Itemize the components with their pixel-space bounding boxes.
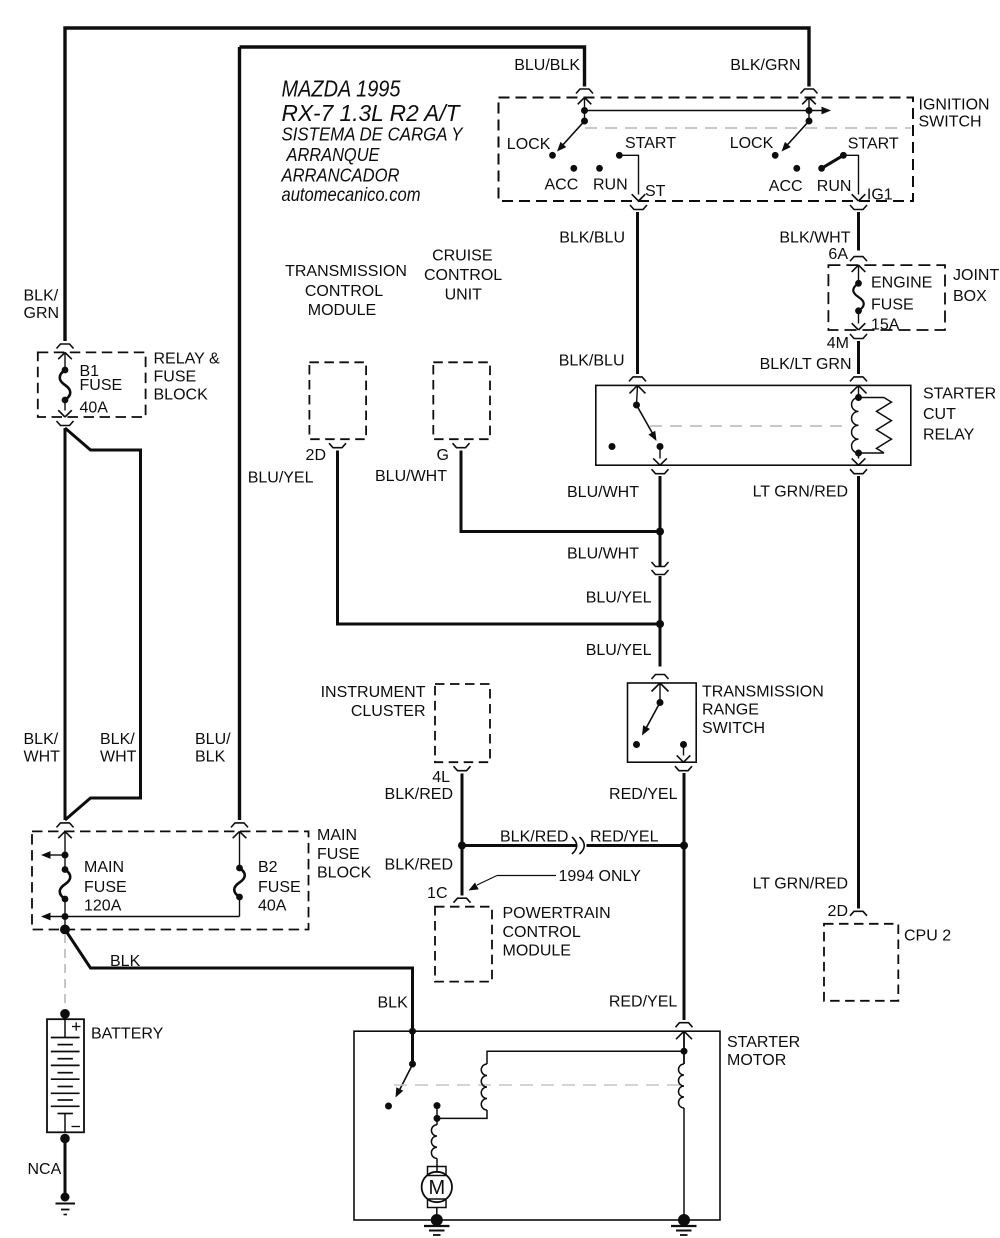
svg-text:FUSE: FUSE xyxy=(258,879,301,896)
label LOCK left xyxy=(507,136,551,153)
contact starter switch left xyxy=(385,1103,392,1110)
relay switch input wire xyxy=(637,385,638,405)
label START left xyxy=(625,135,676,152)
svg-text:BATTERY: BATTERY xyxy=(91,1026,164,1043)
svg-text:BLOCK: BLOCK xyxy=(154,387,209,404)
svg-text:WHT: WHT xyxy=(100,749,137,766)
connector into main fuse block left xyxy=(57,823,74,838)
svg-text:STARTER: STARTER xyxy=(727,1034,800,1051)
wire RED/YEL junction to starter motor xyxy=(683,846,686,1021)
svg-text:RED/YEL: RED/YEL xyxy=(590,829,659,846)
svg-text:CONTROL: CONTROL xyxy=(424,267,502,284)
wire BLK/BLU ignition to relay xyxy=(636,212,639,374)
label B1 FUSE 40A xyxy=(80,363,123,416)
label 4M xyxy=(827,335,849,352)
connector into relay & fuse block xyxy=(57,344,74,359)
label BLU/BLK xyxy=(514,57,580,74)
svg-text:CUT: CUT xyxy=(923,406,956,423)
svg-text:BLU/YEL: BLU/YEL xyxy=(586,642,652,659)
range switch lever xyxy=(642,703,660,736)
svg-text:JOINT: JOINT xyxy=(953,267,999,284)
label CRUISE CONTROL UNIT xyxy=(424,247,502,303)
starter mechanical link (gray dashed) xyxy=(394,1084,682,1086)
svg-text:BLU/WHT: BLU/WHT xyxy=(567,546,639,563)
svg-text:BLU/BLK: BLU/BLK xyxy=(514,57,580,74)
ignition right pin wire xyxy=(808,98,810,122)
svg-text:BLK/LT GRN: BLK/LT GRN xyxy=(760,356,852,373)
contact starter switch right xyxy=(434,1102,441,1109)
ignition left lever (LOCK position) xyxy=(557,121,585,152)
wire BLU/WHT relay to junction xyxy=(659,476,662,532)
svg-text:1994 ONLY: 1994 ONLY xyxy=(559,868,642,885)
node ignition left pin xyxy=(581,107,588,125)
svg-text:BLK: BLK xyxy=(110,953,141,970)
svg-text:BLU/WHT: BLU/WHT xyxy=(567,484,639,501)
svg-text:BLK/GRN: BLK/GRN xyxy=(730,57,800,74)
svg-text:2D: 2D xyxy=(828,903,848,920)
label RED/YEL 2 xyxy=(609,994,678,1011)
starter motor box xyxy=(354,1031,720,1220)
svg-text:CONTROL: CONTROL xyxy=(503,924,581,941)
label BLK/WHT right xyxy=(100,731,137,766)
label BLK/RED 1 xyxy=(385,786,453,803)
wire BLK/RED junction to inline connector xyxy=(462,844,578,847)
label BLK lower xyxy=(378,995,409,1012)
wire BLK/GRN from battery feed: top run and left drop xyxy=(65,28,809,341)
node main fuse output xyxy=(60,925,70,935)
relay coil output wire xyxy=(852,453,866,465)
label NCA xyxy=(28,1161,62,1178)
svg-text:G: G xyxy=(437,447,449,464)
branch arrow lower with link to B2 xyxy=(41,913,240,921)
battery bottom conductor xyxy=(64,1114,66,1133)
svg-text:RUN: RUN xyxy=(593,177,628,194)
starter switch lever xyxy=(396,1065,413,1098)
label ACC left xyxy=(545,177,579,194)
label BLK/WHT 6A xyxy=(779,230,850,264)
connector PCM pin 1C xyxy=(454,898,471,903)
solenoid pull-in coil return xyxy=(437,1110,487,1118)
node relay switch pivot xyxy=(633,402,640,409)
wire LT GRN/RED relay to CPU 2 xyxy=(857,476,860,909)
svg-text:SISTEMA DE CARGA Y: SISTEMA DE CARGA Y xyxy=(282,124,465,145)
node coil return junction xyxy=(434,1115,441,1122)
label BLK/BLU upper xyxy=(559,230,625,247)
main fuse block box xyxy=(32,831,309,929)
wire BLU/BLK left vertical to main fuse block B2 xyxy=(238,47,241,820)
cpu 2 box xyxy=(824,924,898,1001)
relay mechanical link (gray dashed) xyxy=(650,425,846,427)
node relay output contact xyxy=(657,443,664,450)
svg-text:TRANSMISSION: TRANSMISSION xyxy=(285,263,407,280)
svg-text:automecanico.com: automecanico.com xyxy=(282,185,421,206)
powertrain control module box xyxy=(435,907,492,982)
svg-text:TRANSMISSION: TRANSMISSION xyxy=(702,683,824,700)
main fuse wire top xyxy=(64,831,66,869)
solenoid pull-in coil xyxy=(481,1064,487,1110)
svg-text:BOX: BOX xyxy=(953,288,987,305)
svg-text:ST: ST xyxy=(645,183,666,200)
contact RUN left xyxy=(596,165,603,172)
svg-text:RELAY: RELAY xyxy=(923,426,975,443)
svg-text:BLK/RED: BLK/RED xyxy=(500,829,568,846)
svg-text:RED/YEL: RED/YEL xyxy=(609,786,678,803)
label BLK/GRN left xyxy=(24,288,60,323)
wire BLK/LT GRN joint box to relay xyxy=(857,341,860,374)
label JOINT BOX xyxy=(953,267,999,305)
connector ST below ignition xyxy=(630,205,647,210)
label ST xyxy=(645,183,666,200)
label G xyxy=(437,447,449,464)
fuse B2 wire bottom xyxy=(239,897,241,917)
svg-text:BLU/YEL: BLU/YEL xyxy=(248,469,314,486)
wire BLK/RED cluster to junction xyxy=(461,774,464,846)
node hold coil top xyxy=(681,1048,688,1055)
label POWERTRAIN CONTROL MODULE xyxy=(503,905,611,959)
contact RUN right xyxy=(818,165,825,172)
fuse B2 40A xyxy=(234,865,245,901)
range switch input wire xyxy=(659,683,661,703)
label MAIN FUSE 120A xyxy=(84,859,127,915)
label RUN right xyxy=(817,178,852,195)
node BLU/WHT junction xyxy=(656,528,664,536)
solenoid hold coil input xyxy=(683,1031,685,1064)
solenoid hold coil xyxy=(679,1064,685,1108)
svg-text:RANGE: RANGE xyxy=(702,702,759,719)
ignition IG1 takeoff wire xyxy=(843,155,865,201)
label START right xyxy=(848,136,899,153)
contact START left xyxy=(616,152,623,159)
inline connector BLU/WHT-BLU/YEL xyxy=(652,562,669,575)
label 2D CPU xyxy=(828,903,848,920)
label TRANSMISSION RANGE SWITCH xyxy=(702,683,824,737)
wire hold coil to ground xyxy=(683,1108,685,1220)
svg-text:1C: 1C xyxy=(427,885,447,902)
ignition ST takeoff wire xyxy=(619,155,645,201)
svg-text:FUSE: FUSE xyxy=(80,377,123,394)
svg-text:RUN: RUN xyxy=(817,178,852,195)
connector at ignition pin BLU/BLK xyxy=(576,89,593,104)
ignition RUN-START bridge xyxy=(822,155,844,168)
motor M xyxy=(422,1167,452,1208)
label 2D xyxy=(306,447,326,464)
connector CPU 2 pin 2D xyxy=(850,911,867,916)
label STARTER CUT RELAY xyxy=(923,386,996,444)
svg-text:SWITCH: SWITCH xyxy=(919,113,982,130)
wire NCA xyxy=(64,1139,67,1198)
contact relay NC (isolated) xyxy=(609,443,616,450)
svg-text:ENGINE: ENGINE xyxy=(871,274,932,291)
battery plus sign xyxy=(72,1022,81,1030)
label BLU/WHT at cruise xyxy=(375,468,447,485)
wire to battery (gray dashed) xyxy=(64,934,66,1009)
connector cruise pin G xyxy=(453,443,470,448)
node battery negative xyxy=(60,1134,70,1144)
relay & fuse block box xyxy=(38,352,146,417)
label 4L xyxy=(432,769,450,786)
joint box xyxy=(828,265,945,330)
connector cluster pin 4L xyxy=(454,766,471,771)
engine fuse wire bottom xyxy=(852,311,866,330)
node range switch pivot xyxy=(657,699,664,706)
wire field coil to motor xyxy=(436,1158,438,1172)
wire BLK/WHT right branch xyxy=(65,428,141,820)
battery top conductor xyxy=(64,1019,66,1037)
label BLK/LT GRN xyxy=(760,356,852,373)
label BLU/WHT 2 xyxy=(567,546,639,563)
node starter switch pivot xyxy=(409,1061,416,1068)
relay lever xyxy=(637,405,657,441)
svg-text:4L: 4L xyxy=(432,769,450,786)
battery minus sign xyxy=(72,1126,81,1128)
wire BLK/WHT straight branch xyxy=(64,428,67,820)
svg-text:MODULE: MODULE xyxy=(308,302,376,319)
contact LOCK right xyxy=(772,152,779,159)
svg-text:NCA: NCA xyxy=(28,1161,62,1178)
svg-text:WHT: WHT xyxy=(24,749,61,766)
svg-text:LOCK: LOCK xyxy=(507,136,551,153)
title ARRANQUE xyxy=(286,144,380,165)
starter cut relay box xyxy=(596,385,911,465)
ignition switch box xyxy=(499,98,914,202)
connector IG1 below ignition xyxy=(850,205,867,210)
label CPU 2 xyxy=(904,928,951,945)
wire BLK main fuse to starter motor xyxy=(65,930,413,1032)
svg-text:LT GRN/RED: LT GRN/RED xyxy=(753,483,848,500)
connector into transmission range switch xyxy=(652,675,669,692)
svg-text:BLK/RED: BLK/RED xyxy=(385,786,453,803)
connector into starter motor xyxy=(676,1023,693,1039)
wire RED/YEL connector to junction xyxy=(587,844,685,847)
connector below relay right xyxy=(850,469,867,474)
title MAZDA 1995 xyxy=(282,76,401,102)
svg-text:BLK/: BLK/ xyxy=(100,731,135,748)
label LOCK right xyxy=(730,135,774,152)
wire BLU/WHT from cruise G xyxy=(461,451,660,532)
ignition right lever (LOCK position) xyxy=(782,121,810,152)
svg-text:BLK: BLK xyxy=(378,995,409,1012)
connector into main fuse block B2 xyxy=(231,823,248,838)
relay coil resistor xyxy=(859,398,892,454)
starter motor field coil xyxy=(431,1125,437,1159)
node ignition right pin xyxy=(806,107,813,125)
title automecanico.com xyxy=(282,185,421,206)
ignition mechanical link (gray dashed) xyxy=(585,127,911,129)
contact START right xyxy=(840,152,847,159)
relay coil xyxy=(852,398,859,454)
battery plates xyxy=(51,1038,80,1114)
svg-text:2D: 2D xyxy=(306,447,326,464)
wire BLK/WHT ignition to joint box xyxy=(857,212,860,251)
svg-text:POWERTRAIN: POWERTRAIN xyxy=(503,905,611,922)
svg-text:RX-7 1.3L R2 A/T: RX-7 1.3L R2 A/T xyxy=(282,100,462,126)
ignition left pin wire xyxy=(584,98,586,122)
label MAIN FUSE BLOCK title xyxy=(317,827,372,882)
ignition feed line with arrow xyxy=(585,107,831,115)
contact range switch left xyxy=(633,741,640,748)
svg-text:BLK: BLK xyxy=(195,749,226,766)
title RX-7 1.3L R2 A/T xyxy=(282,100,462,126)
svg-text:BLK/RED: BLK/RED xyxy=(385,857,453,874)
solenoid pull-in coil feed xyxy=(487,1051,684,1064)
main fuse 120A xyxy=(60,866,71,902)
node BLU/YEL junction xyxy=(656,620,664,628)
svg-text:GRN: GRN xyxy=(24,305,60,322)
label BLK/GRN xyxy=(730,57,800,74)
callout 1994 ONLY xyxy=(469,868,642,891)
label BLU/YEL 1 xyxy=(586,590,652,607)
label ACC right xyxy=(769,178,803,195)
main fuse wire bottom xyxy=(64,899,66,930)
node relay coil bottom xyxy=(855,450,862,457)
label BLK/RED 2 xyxy=(385,857,453,874)
transmission control module box xyxy=(309,362,366,439)
svg-text:MODULE: MODULE xyxy=(503,943,571,960)
svg-text:RED/YEL: RED/YEL xyxy=(609,994,678,1011)
svg-text:FUSE: FUSE xyxy=(317,846,360,863)
svg-text:CLUSTER: CLUSTER xyxy=(351,703,426,720)
label BLU/YEL 2 xyxy=(586,642,652,659)
label LT GRN/RED 2 xyxy=(753,876,848,893)
label STARTER MOTOR xyxy=(727,1034,800,1069)
svg-text:BLK/BLU: BLK/BLU xyxy=(559,230,625,247)
wire motor to ground xyxy=(436,1208,438,1221)
svg-text:BLK/WHT: BLK/WHT xyxy=(779,230,850,247)
transmission range switch box xyxy=(628,683,697,762)
svg-text:START: START xyxy=(625,135,676,152)
wire BLK/RED junction to PCM xyxy=(461,846,464,896)
svg-text:STARTER: STARTER xyxy=(923,386,996,403)
title ARRANCADOR xyxy=(281,165,400,186)
battery box xyxy=(47,1019,84,1132)
label BLU/WHT 1 xyxy=(567,484,639,501)
connector TCM pin 2D xyxy=(329,443,346,448)
label B2 FUSE 40A xyxy=(258,859,301,915)
label BLU/YEL at TCM xyxy=(248,469,314,486)
connector into starter cut relay right xyxy=(850,377,867,394)
fuse B2 wire top xyxy=(239,831,241,868)
svg-text:40A: 40A xyxy=(258,898,287,915)
svg-text:UNIT: UNIT xyxy=(445,287,483,304)
svg-text:MOTOR: MOTOR xyxy=(727,1052,786,1069)
svg-text:M: M xyxy=(428,1177,445,1199)
ground at battery xyxy=(56,1193,76,1215)
label ENGINE FUSE 15A xyxy=(871,274,932,333)
wire BLU/YEL junction to range switch xyxy=(659,624,662,667)
connector below relay & fuse block xyxy=(57,421,74,426)
wire contact to motor xyxy=(436,1106,438,1125)
label IG1 xyxy=(867,187,893,204)
connector into joint box xyxy=(850,257,867,272)
label RED/YEL 1 xyxy=(609,786,678,803)
inline connector BLK/RED-RED/YEL xyxy=(572,837,584,854)
contact ACC right xyxy=(793,165,800,172)
svg-text:B2: B2 xyxy=(258,859,278,876)
connector at ignition pin BLK/GRN xyxy=(801,89,818,104)
svg-text:ARRANCADOR: ARRANCADOR xyxy=(281,165,400,186)
starter switch input wire xyxy=(411,1031,414,1064)
contact LOCK left xyxy=(549,152,556,159)
label LT GRN/RED 1 xyxy=(753,483,848,500)
node relay coil top xyxy=(855,394,862,401)
svg-text:CONTROL: CONTROL xyxy=(305,283,383,300)
svg-text:BLU/: BLU/ xyxy=(195,731,231,748)
instrument cluster box xyxy=(435,684,490,762)
svg-text:BLK/BLU: BLK/BLU xyxy=(559,352,625,369)
svg-text:SWITCH: SWITCH xyxy=(702,720,765,737)
connector below joint box xyxy=(850,334,867,339)
fuse B1 wire top xyxy=(64,352,66,370)
svg-text:BLOCK: BLOCK xyxy=(317,865,372,882)
svg-text:START: START xyxy=(848,136,899,153)
engine fuse wire top xyxy=(858,265,860,283)
wire RED/YEL range switch to junction xyxy=(683,773,686,846)
connector into starter cut relay left xyxy=(629,377,646,394)
wire BLU/WHT junction to connector xyxy=(659,532,662,567)
svg-text:FUSE: FUSE xyxy=(84,879,127,896)
fuse B1 wire bottom xyxy=(58,400,72,417)
svg-text:RELAY &: RELAY & xyxy=(154,350,220,367)
svg-text:40A: 40A xyxy=(80,400,109,417)
node BLK/RED junction xyxy=(458,842,466,850)
contact range switch right xyxy=(680,741,687,748)
svg-text:IGNITION: IGNITION xyxy=(919,97,990,114)
svg-text:LOCK: LOCK xyxy=(730,135,774,152)
svg-text:BLK/: BLK/ xyxy=(24,288,59,305)
branch arrow upper xyxy=(41,851,69,859)
svg-text:MAZDA 1995: MAZDA 1995 xyxy=(282,76,401,102)
node BLK entry on case xyxy=(409,1028,416,1035)
label TRANSMISSION CONTROL MODULE xyxy=(285,263,407,319)
cruise control unit box xyxy=(433,362,490,439)
svg-text:MAIN: MAIN xyxy=(317,827,357,844)
ground at solenoid xyxy=(671,1214,697,1235)
label BLK/RED horizontal xyxy=(500,829,568,846)
engine fuse 15A xyxy=(853,280,864,314)
title SISTEMA DE CARGA Y xyxy=(282,124,465,145)
range switch output wire xyxy=(677,745,691,763)
svg-text:FUSE: FUSE xyxy=(871,296,914,313)
svg-text:BLK/: BLK/ xyxy=(24,731,59,748)
connector below relay left xyxy=(652,469,669,474)
connector below range switch xyxy=(675,766,692,771)
svg-text:LT GRN/RED: LT GRN/RED xyxy=(753,876,848,893)
svg-text:6A: 6A xyxy=(828,246,848,263)
node RED/YEL junction xyxy=(680,842,688,850)
svg-text:MAIN: MAIN xyxy=(84,859,124,876)
svg-text:4M: 4M xyxy=(827,335,849,352)
label BLK upper xyxy=(110,953,141,970)
svg-text:BLU/YEL: BLU/YEL xyxy=(586,590,652,607)
wire BLU/BLK top run and drop to ignition xyxy=(240,47,585,87)
label BATTERY xyxy=(91,1026,164,1043)
relay coil input wire xyxy=(858,385,860,397)
svg-text:BLU/WHT: BLU/WHT xyxy=(375,468,447,485)
svg-text:CRUISE: CRUISE xyxy=(432,247,492,264)
contact ACC left xyxy=(570,165,577,172)
node battery positive xyxy=(60,1009,70,1019)
svg-text:ACC: ACC xyxy=(769,178,803,195)
relay output wire xyxy=(653,447,667,466)
wire BLU/YEL connector to junction xyxy=(659,576,662,624)
label RUN left xyxy=(593,177,628,194)
svg-text:15A: 15A xyxy=(871,317,900,334)
label IGNITION SWITCH xyxy=(919,97,990,131)
label INSTRUMENT CLUSTER xyxy=(321,684,426,720)
svg-text:INSTRUMENT: INSTRUMENT xyxy=(321,684,426,701)
svg-text:120A: 120A xyxy=(84,898,122,915)
svg-text:CPU 2: CPU 2 xyxy=(904,928,951,945)
